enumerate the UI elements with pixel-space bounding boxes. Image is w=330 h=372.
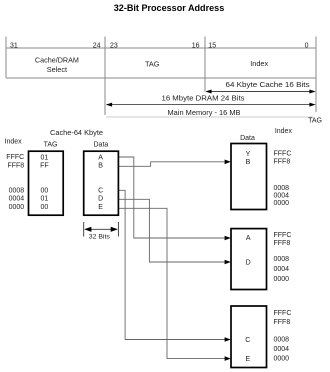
svg-text:32 Bits: 32 Bits (89, 234, 111, 241)
svg-text:0004: 0004 (274, 346, 290, 353)
svg-text:Index: Index (250, 59, 268, 68)
svg-text:FFF8: FFF8 (7, 162, 24, 169)
svg-text:Main Memory - 16 MB: Main Memory - 16 MB (168, 110, 241, 117)
svg-text:TAG: TAG (44, 141, 58, 148)
svg-text:0000: 0000 (274, 276, 290, 283)
svg-text:C: C (245, 337, 250, 344)
svg-text:FFFC: FFFC (6, 154, 24, 161)
svg-text:Cache-64 Kbyte: Cache-64 Kbyte (50, 130, 103, 137)
svg-text:00: 00 (41, 204, 49, 211)
svg-text:B: B (98, 163, 103, 170)
svg-text:0004: 0004 (274, 192, 290, 199)
svg-text:0008: 0008 (9, 188, 25, 195)
svg-text:FF: FF (40, 163, 49, 170)
svg-text:32-Bit Processor Address: 32-Bit Processor Address (114, 3, 225, 13)
svg-text:16: 16 (192, 43, 200, 50)
svg-text:0008: 0008 (274, 337, 290, 344)
svg-text:16 Mbyte DRAM 24 Bits: 16 Mbyte DRAM 24 Bits (162, 96, 246, 103)
svg-text:E: E (98, 204, 103, 211)
svg-text:31: 31 (10, 43, 18, 50)
svg-text:0008: 0008 (274, 256, 290, 263)
svg-text:0004: 0004 (274, 266, 290, 273)
svg-text:FFF8: FFF8 (274, 158, 291, 165)
svg-text:01: 01 (41, 155, 49, 162)
svg-text:64 Kbyte Cache 16 Bits: 64 Kbyte Cache 16 Bits (226, 82, 311, 89)
svg-text:0000: 0000 (274, 200, 290, 207)
svg-text:24: 24 (93, 43, 101, 50)
svg-text:Data: Data (94, 141, 109, 148)
svg-text:Cache/DRAM: Cache/DRAM (35, 56, 79, 65)
svg-text:FFFC: FFFC (274, 232, 292, 239)
svg-text:Index: Index (275, 128, 293, 135)
svg-text:0008: 0008 (274, 185, 290, 192)
svg-text:0000: 0000 (274, 356, 290, 363)
svg-text:FFFC: FFFC (274, 310, 292, 317)
svg-text:FFFC: FFFC (274, 150, 292, 157)
svg-text:E: E (245, 356, 250, 363)
svg-text:Data: Data (240, 135, 255, 142)
svg-text:D: D (98, 196, 103, 203)
svg-text:TAG: TAG (145, 59, 160, 68)
svg-text:A: A (246, 235, 251, 242)
svg-text:FFF8: FFF8 (274, 240, 291, 247)
svg-text:01: 01 (41, 196, 49, 203)
svg-text:Y: Y (246, 151, 251, 158)
svg-text:00: 00 (41, 188, 49, 195)
svg-text:23: 23 (110, 43, 118, 50)
svg-text:0: 0 (305, 43, 309, 50)
svg-text:FFF8: FFF8 (274, 319, 291, 326)
svg-text:TAG: TAG (308, 118, 322, 125)
svg-text:Select: Select (47, 65, 67, 74)
svg-text:D: D (246, 259, 251, 266)
svg-text:C: C (98, 188, 103, 195)
svg-text:0004: 0004 (9, 196, 25, 203)
svg-text:A: A (98, 155, 103, 162)
svg-text:Index: Index (5, 138, 23, 145)
svg-text:0000: 0000 (9, 204, 25, 211)
svg-text:15: 15 (208, 43, 216, 50)
svg-text:B: B (246, 159, 251, 166)
